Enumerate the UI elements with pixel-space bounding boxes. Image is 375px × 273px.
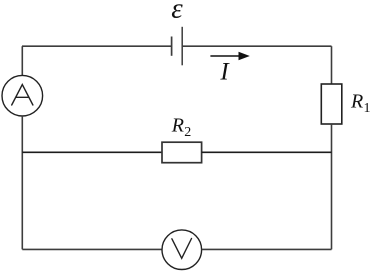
svg-text:ε: ε [171, 0, 183, 25]
wire bottom-right segment [202, 248, 332, 250]
svg-text:I: I [219, 58, 230, 85]
battery EMF source plates [172, 27, 183, 66]
wire middle left segment [22, 151, 162, 153]
svg-text:1: 1 [364, 101, 371, 116]
voltmeter V [162, 230, 202, 270]
wire right below R1 [331, 124, 333, 249]
wire bottom-left segment [22, 248, 162, 250]
resistor R2 [162, 142, 202, 163]
wire middle right segment [202, 151, 332, 153]
resistor R1 [321, 84, 342, 124]
current arrow [210, 52, 249, 61]
ammeter A [2, 75, 43, 116]
wire right above R1 [331, 46, 333, 84]
svg-text:R: R [171, 115, 184, 137]
wire top-right segment [182, 45, 331, 47]
wire top-left segment [22, 45, 172, 47]
wire left above ammeter [21, 46, 23, 75]
wire left below ammeter [21, 116, 23, 249]
svg-text:R: R [350, 90, 363, 112]
svg-text:2: 2 [184, 125, 191, 140]
